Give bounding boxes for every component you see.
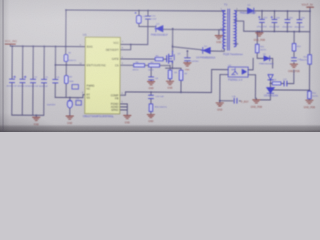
- capacitor C14 output 2: [271, 16, 277, 22]
- capacitor C10 clamp film: [145, 15, 150, 45]
- wire join to electrolytic and RT pin: [55, 94, 85, 116]
- capacitor C5 input bank 4: [41, 79, 46, 82]
- wire clamp cap stubs from B+: [139, 11, 148, 27]
- diode D3 aux/clamp: [155, 26, 163, 32]
- wire CS filter cap chain: [150, 65, 152, 81]
- capacitor C9 small box near RT: [76, 101, 82, 106]
- wire HV sense column: [66, 10, 67, 65]
- resistor R11 opto feed: [255, 44, 259, 52]
- wire input cap column 3: [32, 46, 34, 115]
- wire secondary lower pin: [234, 43, 237, 45]
- connector J1 small box: [72, 85, 79, 90]
- resistor R1 HV sense upper: [64, 54, 68, 61]
- wire clamp node to diode D3: [139, 26, 155, 28]
- resistor R12 comp: [272, 82, 281, 85]
- ground transformer aux: [215, 36, 222, 39]
- resistor R14 divider top: [308, 55, 312, 65]
- ground D2 snubber: [184, 63, 191, 66]
- wire GATE pin to gate resistor: [120, 58, 166, 60]
- node dots secondary: [256, 10, 311, 91]
- wire input cap column 4: [43, 46, 45, 115]
- ground snubber RC: [290, 64, 297, 67]
- capacitor C1 input bank 1: [9, 76, 15, 83]
- resistor R2 HV sense lower: [64, 75, 68, 83]
- wire output rail D4 to VOUT: [253, 10, 309, 12]
- wire drain vertical: [172, 29, 174, 51]
- capacitor C6 input bank 5: [53, 80, 58, 83]
- wire TL431 ref to divider: [270, 89, 309, 91]
- ground sense resistor: [166, 81, 173, 84]
- capacitor C20 snubber at D2 node: [185, 51, 191, 63]
- ground COMP chain: [147, 114, 154, 117]
- wire input cap column 1: [11, 46, 13, 115]
- resistor R10 COMP: [149, 104, 153, 112]
- ground HV divider chain: [66, 116, 73, 119]
- transistor Q1 mosfet: [167, 51, 175, 63]
- diode D6 zener above TL431: [268, 75, 273, 80]
- wire snubber column: [293, 32, 295, 65]
- wire VCC/det branch through D2: [173, 45, 225, 52]
- wire EN pin connection: [55, 64, 85, 66]
- wire COMP/FB line to opto: [120, 92, 212, 96]
- wire VOUT stem: [308, 7, 311, 100]
- wire secondary top pin to D4: [235, 10, 247, 12]
- diode D5 led indicator: [264, 56, 270, 61]
- node VCC_IN power flag: [5, 43, 15, 45]
- wire COMP RC chain: [150, 92, 152, 114]
- wire secondary return rail: [235, 21, 310, 33]
- resistor R8 sense: [168, 70, 172, 79]
- wire BIAS pin connection: [66, 46, 85, 48]
- resistor R6 CS series: [134, 64, 145, 67]
- capacitor C17 comp: [284, 81, 287, 86]
- node A D2 snubber junction: [187, 50, 189, 52]
- node VOUT_5V power flag: [307, 6, 314, 8]
- resistor R7 CS series 2: [149, 64, 160, 67]
- diode D2 detect: [201, 47, 210, 53]
- capacitor C13 output 1: [258, 16, 264, 22]
- capacitor C12 COMP: [149, 95, 154, 98]
- pin numbers T1: [220, 9, 238, 52]
- capacitor C3 input bank 3: [30, 79, 35, 82]
- wire aux return to ground near transformer: [219, 30, 222, 36]
- wire DET pin jog up to VCC wire: [120, 44, 131, 49]
- capacitor C18 snubber: [292, 58, 297, 61]
- transformer T1: [222, 9, 237, 50]
- ground TL431: [253, 100, 260, 103]
- wire CS pin line: [120, 64, 170, 66]
- wire comp RC to divider column: [270, 70, 293, 84]
- wire opto LED feed resistor column: [257, 31, 273, 68]
- wire B+ top rail from input to transformer: [66, 10, 225, 11]
- wire input cap column 5: [54, 46, 56, 97]
- wire zener to TL431: [256, 80, 270, 100]
- capacitor C15 output 3: [285, 20, 290, 23]
- wire opto pin1 down to COMP line: [211, 70, 228, 93]
- node dots input rail: [11, 9, 72, 117]
- resistor R15 divider bottom: [308, 91, 312, 99]
- resistor R13 snubber: [292, 43, 296, 51]
- wire sense lower branch resistor: [65, 65, 67, 97]
- ground IC pins: [124, 115, 131, 118]
- resistor R9 divider: [179, 70, 183, 80]
- ground secondary return: [256, 33, 263, 36]
- optocoupler U3: [228, 67, 248, 77]
- diode D4 output rectifier: [247, 8, 253, 13]
- op-amp U1 controller IC body: [79, 33, 124, 119]
- ground opto pin2: [216, 103, 223, 106]
- wire VCC_IN power stem: [10, 45, 66, 47]
- wire input cap column 2: [21, 46, 23, 115]
- op-amp U4 TL431: [267, 88, 275, 94]
- wire IC ground pins: [120, 104, 128, 116]
- wire output cap columns: [262, 11, 300, 32]
- wire D3 to switch node and transformer lower pin: [163, 28, 222, 30]
- capacitor C11 CS filter: [149, 77, 154, 80]
- ground input bus: [33, 117, 40, 120]
- resistor R5 gate: [155, 57, 163, 60]
- wire input ground bus: [12, 115, 44, 117]
- capacitor C2 input bank 2: [20, 76, 26, 83]
- wire VCC pin to aux cap column: [120, 20, 148, 44]
- capacitor C4 clamp electrolytic: [135, 12, 142, 23]
- wire opto right pins: [248, 58, 256, 98]
- capacitor C16 output 4: [297, 20, 302, 23]
- ground output divider: [306, 100, 313, 103]
- wire source node row: [165, 61, 181, 93]
- wire opto pin2 to ground and RST cap: [220, 74, 241, 103]
- capacitor C8 electrolytic at SS: [67, 100, 72, 108]
- capacitor C19 RST: [234, 98, 237, 103]
- ground CS filter: [147, 82, 154, 85]
- node dots middle: [129, 10, 221, 102]
